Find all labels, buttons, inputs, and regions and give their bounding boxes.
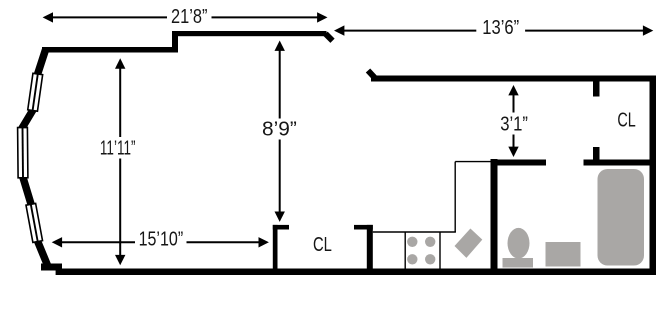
closet CL left jamb [273, 225, 289, 269]
wall: right exterior wall [650, 76, 657, 276]
svg-text:15’10”: 15’10” [139, 227, 184, 250]
wall: bottom exterior wall [56, 269, 655, 276]
wall: hall/CL lower wall [584, 160, 650, 166]
wall: bay window polyline [22, 50, 48, 267]
dimension 13'6" arrow [334, 15, 653, 38]
dimension 11'11" arrow [100, 58, 136, 265]
wall: bathroom top wall [491, 160, 547, 166]
bathroom sink [546, 242, 581, 267]
window W1 in bay [28, 73, 43, 111]
svg-text:CL: CL [617, 108, 636, 131]
svg-text:3’1”: 3’1” [500, 112, 528, 135]
wall: bottom-left corner step piece [41, 264, 62, 271]
dimension 21'8" arrow [43, 4, 328, 27]
kitchen counter outline [373, 162, 491, 269]
wall: CL lower door stub [593, 147, 600, 166]
wall: step between top walls [172, 31, 178, 53]
dimension 15'10" arrow [52, 227, 269, 250]
window W3 in bay [26, 203, 43, 242]
wall: top-left exterior wall [42, 47, 178, 53]
svg-text:8’9”: 8’9” [262, 118, 297, 141]
wall: CL upper door stub [593, 82, 600, 97]
kitchen sink diamond [455, 229, 483, 258]
dimension 3'1" arrow [500, 85, 528, 157]
svg-text:13’6”: 13’6” [482, 15, 519, 38]
door jamb: living room entry diagonal tick [326, 34, 333, 41]
svg-text:11’11”: 11’11” [100, 136, 136, 160]
stove burners [407, 237, 435, 265]
door jamb: hall entry diagonal tick [368, 71, 375, 78]
svg-text:CL: CL [313, 233, 332, 256]
wall: top wall of right section [371, 76, 656, 82]
dimension 8'9" arrow [262, 41, 297, 222]
wall: bathroom left wall [491, 159, 498, 269]
toilet [503, 228, 534, 268]
wall: upper top wall of living room [172, 31, 327, 36]
closet CL right jamb [354, 225, 373, 269]
bathtub [598, 169, 645, 266]
window W2 in bay [18, 127, 28, 177]
svg-text:21’8”: 21’8” [171, 4, 207, 27]
